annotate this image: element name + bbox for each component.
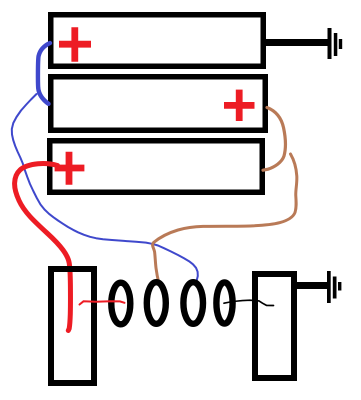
plus label B3: [55, 152, 85, 185]
plate P2 (bottom right): [255, 274, 294, 378]
battery B1: [51, 15, 264, 67]
battery B3: [50, 141, 263, 193]
wire red thin P1 to coil: [80, 301, 125, 304]
wire blue thin to coil: [12, 94, 198, 283]
ground G1: [328, 28, 343, 59]
wire black thin coil to P2: [224, 300, 274, 305]
coil L1 loop 4: [216, 282, 232, 323]
coil L1 loop 1: [111, 283, 130, 325]
coil L1 loop 2: [147, 282, 166, 324]
coil L1 loop 3: [183, 282, 203, 324]
wire B1 to ground G1: [264, 39, 328, 46]
wire P2 to ground G2: [295, 282, 329, 289]
plus label B2: [224, 90, 255, 121]
plate P1 (bottom left): [51, 269, 94, 383]
plus label B1: [59, 27, 91, 62]
ground G2: [327, 271, 341, 303]
battery B2: [51, 77, 266, 131]
wire red thick B3 to plate P1: [15, 164, 71, 331]
wire brown B2 down (upper hook to B3): [263, 108, 285, 171]
wire brown to coil: [153, 154, 297, 283]
wire blue thick B1 to B2: [38, 43, 50, 104]
